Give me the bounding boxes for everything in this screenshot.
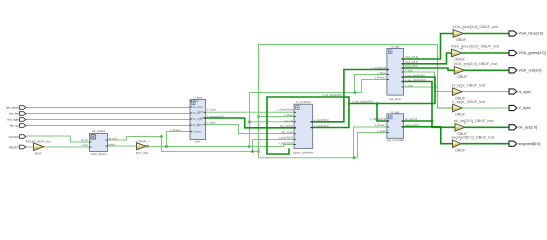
svg-text:VGA_blue[3:0]: VGA_blue[3:0] (519, 32, 544, 36)
bus VGA_g OBUF to port (462, 52, 509, 54)
svg-text:U_controller: U_controller (296, 100, 311, 104)
output port bit_sel[3:0] (509, 125, 537, 130)
svg-text:H_sync_OBUF_inst: H_sync_OBUF_inst (452, 83, 485, 87)
svg-text:U_seg: U_seg (391, 110, 400, 114)
module U_vga (387, 44, 404, 101)
wire clk net down to bottom run (162, 137, 259, 152)
svg-text:h_sync: h_sync (405, 69, 414, 72)
output port VGA_blue[3:0] (509, 31, 543, 36)
buffer VGA_blue OBUF (453, 25, 499, 42)
svg-text:VGA_blue[3:0]_OBUF_inst: VGA_blue[3:0]_OBUF_inst (453, 25, 499, 29)
wire V_sync OBUF to port (462, 107, 509, 109)
svg-text:dir: dir (200, 117, 203, 120)
node s_Reset_i junction 2 (248, 145, 250, 147)
wire s_Reset_i from INV output (149, 146, 250, 148)
svg-text:s_led_clkdiv[24:0]: s_led_clkdiv[24:0] (322, 94, 342, 97)
svg-text:clock_wizard: clock_wizard (90, 152, 106, 156)
svg-text:btn_down: btn_down (193, 106, 204, 109)
svg-text:s_Reset_i: s_Reset_i (375, 124, 387, 127)
buffer VGA_red OBUF (454, 62, 498, 79)
svg-text:RTL_INV: RTL_INV (136, 151, 148, 155)
node loop junction at controller pin2 row (257, 115, 259, 117)
svg-text:VGA_red[3:0]_OBUF_inst: VGA_red[3:0]_OBUF_inst (454, 62, 498, 66)
svg-text:RESET_IBUF_inst: RESET_IBUF_inst (26, 139, 51, 143)
svg-text:s_Move: s_Move (284, 114, 293, 117)
input port RESET (9, 145, 26, 149)
svg-text:btn_right: btn_right (7, 117, 19, 121)
module U_btns (190, 96, 206, 144)
svg-text:seg_controller: seg_controller (386, 138, 404, 142)
wire locked net to INV (108, 145, 137, 147)
svg-text:clk_in1: clk_in1 (81, 140, 89, 142)
node bit_sel column junction (431, 120, 434, 123)
bus pointY from controller joining lower run (313, 103, 349, 127)
wire s_GameClock from btns Clock pin to controller pin1 (206, 111, 294, 113)
buffer segment OBUF (452, 136, 495, 153)
svg-text:btn_down: btn_down (6, 105, 19, 109)
svg-text:s_pointY[6:0]: s_pointY[6:0] (314, 125, 329, 128)
svg-text:vga_driver: vga_driver (389, 97, 402, 101)
net labels at vga left (371, 67, 386, 80)
module clk_wizard (81, 129, 118, 156)
svg-text:s_Reset_i: s_Reset_i (135, 139, 149, 143)
bus VGA_g to OBUF (404, 53, 452, 64)
node clk bottom junction (257, 150, 259, 152)
svg-text:Move: Move (197, 124, 203, 126)
svg-text:bit_sel[3:0]_OBUF_inst: bit_sel[3:0]_OBUF_inst (454, 119, 494, 123)
svg-text:OBUF: OBUF (456, 38, 467, 42)
svg-text:pos_clk: pos_clk (285, 120, 294, 123)
wire btn_right net (26, 119, 190, 121)
svg-text:game_controller: game_controller (293, 150, 313, 154)
inverter s_Reset_i RTL_INV (135, 139, 149, 155)
net label on clkdiv lower bus (352, 101, 373, 104)
svg-text:clk_out1: clk_out1 (108, 138, 117, 141)
input port btn_up (10, 123, 26, 127)
node s_Reset_i junction (165, 145, 167, 147)
svg-text:abc_move: abc_move (281, 131, 293, 134)
svg-text:s_Clock: s_Clock (207, 109, 217, 112)
svg-text:VGA_b[3:0]: VGA_b[3:0] (405, 56, 418, 59)
net labels at seg right (405, 118, 420, 127)
input port CLOCK (9, 135, 26, 139)
wire s_Reset_i up into U_btns pin (167, 132, 191, 147)
svg-text:btn_up: btn_up (10, 123, 20, 127)
wire reset branch vertical up to vga column (250, 93, 338, 147)
wire clk_out1 net with jog (108, 137, 162, 141)
wire v_sync stub from vga (404, 86, 438, 88)
bus VGA_r OBUF to port (465, 69, 509, 71)
wire s_Reset_i jog into controller pin 7 (250, 145, 295, 147)
svg-text:OBUF: OBUF (457, 75, 468, 79)
svg-text:segment[6:0]_OBUF_inst: segment[6:0]_OBUF_inst (452, 136, 495, 140)
node clkdiv branch to seg (376, 102, 379, 105)
svg-text:s_Clock: s_Clock (377, 130, 387, 133)
svg-text:U_vga: U_vga (391, 44, 400, 48)
svg-text:OBUF: OBUF (455, 148, 466, 152)
wire CLOCK net (26, 136, 90, 142)
wire riser into vga pin 2 (355, 75, 387, 93)
wire Move net from U_btns down to controller pin5 (206, 125, 294, 134)
buffer V_sync OBUF (452, 100, 485, 117)
svg-text:pos_dir[3:0]: pos_dir[3:0] (280, 125, 293, 128)
net label s_Reset_i on btns reset wire (170, 129, 182, 132)
wire riser to controller pin6 (253, 140, 295, 152)
svg-text:RESET: RESET (9, 145, 19, 149)
buffer bit_sel OBUF (454, 119, 494, 136)
net labels at btns right (207, 109, 224, 125)
svg-text:segment[6:0]: segment[6:0] (519, 142, 541, 146)
svg-text:locked: locked (108, 144, 115, 146)
svg-text:U_btns: U_btns (193, 96, 202, 100)
wire riser into vga pin 3 (362, 80, 387, 93)
node seg riser junction (353, 157, 355, 159)
svg-text:OBUF: OBUF (455, 113, 466, 117)
svg-text:s_seg_clkdiv[24:0]: s_seg_clkdiv[24:0] (352, 101, 373, 104)
wire riser to seg pin2 (354, 127, 387, 158)
net labels at seg left (370, 118, 387, 133)
input port btn_left (9, 111, 26, 115)
input port btn_down (6, 105, 26, 109)
bus VGA_b OBUF to port (464, 33, 509, 35)
wire btn_up net (26, 125, 190, 127)
svg-text:CLOCK: CLOCK (9, 135, 19, 139)
bus direction[3:0] btns to controller (206, 118, 294, 128)
bus segment seg to OBUF (404, 127, 453, 144)
wire h_sync from vga down to H OBUF (404, 72, 453, 92)
svg-text:V_sync: V_sync (519, 106, 531, 110)
output port VGA_red[3:0] (509, 68, 541, 73)
svg-text:V_sync_OBUF_inst: V_sync_OBUF_inst (452, 100, 485, 104)
wire btn_left net (26, 113, 190, 115)
bus clkdiv big loop from vga around to bottom (267, 77, 435, 154)
svg-text:bit_sel[3:0]: bit_sel[3:0] (519, 126, 538, 130)
input port btn_right (7, 117, 25, 121)
svg-text:bit_sel[3:0]: bit_sel[3:0] (405, 118, 417, 121)
svg-text:VGA_green[3:0]: VGA_green[3:0] (519, 51, 546, 55)
bus clkdivB from vga down joining bit_sel column (404, 82, 432, 121)
buffer H_sync OBUF (452, 83, 485, 100)
svg-text:clk_wizard: clk_wizard (92, 129, 106, 133)
wire branch into controller pin 3 (250, 121, 295, 123)
svg-text:s_pointX[6:0]: s_pointX[6:0] (278, 137, 293, 140)
svg-text:resetn: resetn (82, 144, 89, 147)
net labels at controller left (277, 109, 293, 145)
buffer RESET_IBUF_inst (26, 139, 51, 155)
svg-text:IBUF: IBUF (35, 151, 42, 155)
svg-text:s_pointX[6:0]: s_pointX[6:0] (371, 67, 386, 70)
net labels at controller right (314, 119, 329, 128)
svg-text:s_ClkDiv[24:0]: s_ClkDiv[24:0] (370, 118, 386, 121)
svg-text:s_pointX[6:0]: s_pointX[6:0] (314, 119, 329, 122)
wire big loop up and over down to V OBUF (259, 45, 453, 152)
svg-text:VGA_g[3:0]: VGA_g[3:0] (405, 61, 418, 64)
net label on clkdiv bus (322, 94, 342, 97)
bus segment OBUF to port (461, 143, 509, 145)
bus VGA_r to OBUF (404, 68, 455, 70)
svg-text:VGA_green[3:0]_OBUF_inst: VGA_green[3:0]_OBUF_inst (451, 45, 499, 49)
wire controller pin2 tap from loop (259, 116, 295, 118)
wire RESET_IBUF out to clk_wizard resetn (44, 146, 90, 148)
svg-text:segment[6:0]: segment[6:0] (405, 124, 420, 127)
node branch to controller pin3 (248, 121, 250, 123)
net labels at vga right (405, 56, 426, 88)
node clk junction (160, 135, 162, 137)
svg-text:btn_left: btn_left (9, 111, 19, 115)
svg-text:s_GameClock: s_GameClock (277, 109, 293, 112)
wire RESET net into IBUF (26, 146, 34, 148)
bus VGA_b to OBUF (404, 34, 454, 60)
wire riser to seg pin3 (358, 133, 387, 158)
bus pointX from controller to vga (313, 70, 387, 122)
svg-text:btns: btns (195, 140, 201, 144)
output port VGA_green[3:0] (509, 50, 546, 55)
svg-text:s_Reset: s_Reset (193, 131, 202, 134)
svg-text:s_led_clkdiv[24:0]: s_led_clkdiv[24:0] (405, 74, 425, 77)
buffer VGA_green OBUF (451, 45, 499, 62)
module U_controller (293, 100, 313, 154)
svg-text:s_direction[3:0]: s_direction[3:0] (207, 115, 224, 118)
output port H_sync (509, 89, 531, 94)
wire clk net lower run to seg risers (259, 152, 358, 158)
svg-text:VGA_red[3:0]: VGA_red[3:0] (519, 69, 542, 73)
node vga riser junction (354, 91, 356, 93)
svg-text:VGA_r[3:0]: VGA_r[3:0] (405, 65, 418, 68)
module U_seg (386, 110, 404, 142)
svg-text:v_sync: v_sync (405, 84, 414, 87)
output port V_sync (509, 105, 531, 110)
svg-text:H_sync: H_sync (519, 90, 532, 94)
svg-text:s_Reset_i: s_Reset_i (375, 77, 387, 80)
wire H_sync OBUF to port (462, 91, 509, 93)
svg-text:Clock: Clock (193, 101, 200, 103)
wire run y92.5 to vga risers (337, 92, 362, 94)
svg-text:s_pointY[6:0]: s_pointY[6:0] (278, 142, 293, 145)
svg-text:s_Move: s_Move (377, 72, 386, 75)
pin specks on OBUF tips (460, 29, 465, 140)
bus clkdiv branch down into seg pin1 (377, 104, 387, 122)
svg-text:s_seg_clkdiv[24:0]: s_seg_clkdiv[24:0] (405, 79, 426, 82)
bus bit_sel OBUF to port (465, 126, 509, 128)
svg-text:Clock: Clock (197, 111, 204, 113)
bus bit_sel seg to OBUF (404, 121, 455, 127)
svg-text:s_Move: s_Move (207, 122, 216, 125)
output port segment[6:0] (509, 141, 540, 146)
node riser junction on clk run (251, 150, 253, 152)
wire btn_down net (26, 107, 190, 109)
